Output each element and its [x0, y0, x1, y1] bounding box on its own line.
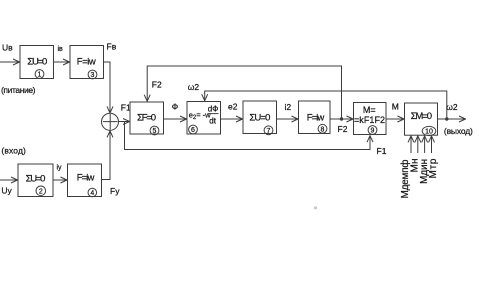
svg-text:M: M: [392, 101, 399, 111]
label Мтр: [428, 158, 439, 178]
svg-text:Uy: Uy: [1, 186, 12, 196]
wire Мдин input: [424, 136, 426, 153]
svg-text:ΣU=0: ΣU=0: [27, 57, 47, 68]
block U8 F=iw right: [299, 101, 331, 134]
pin number 5: [150, 126, 159, 135]
label (выход): [444, 126, 473, 136]
svg-text:5: 5: [153, 128, 157, 135]
node Ф label: [172, 102, 178, 112]
svg-text:M=: M=: [363, 105, 376, 115]
block U5 sum-F ΣF=0: [130, 102, 164, 134]
svg-text:10: 10: [425, 129, 433, 136]
node omega2 label top: [188, 82, 200, 92]
svg-text:Ф: Ф: [172, 102, 178, 112]
wire omega2 feedback into block 6: [205, 91, 449, 121]
block U10 sum-M ΣM=0: [405, 103, 438, 135]
wire Fв to summing junction: [104, 62, 111, 113]
block U3 F=iw upper: [70, 46, 104, 79]
svg-text:4: 4: [90, 190, 94, 197]
svg-text:F=iw: F=iw: [307, 113, 325, 124]
pin number 9: [368, 126, 377, 135]
svg-text:iв: iв: [58, 46, 64, 53]
pin number 2: [36, 186, 46, 196]
label (питание): [1, 85, 36, 95]
block U4 F=iw lower: [68, 164, 102, 197]
svg-text:i2: i2: [285, 102, 292, 112]
block U7 sum-U ΣU=0: [243, 101, 277, 134]
wire input Uв: [0, 61, 20, 63]
svg-text:F2: F2: [152, 79, 162, 89]
node Fy label: [110, 186, 120, 196]
wire output omega2: [438, 118, 466, 120]
svg-text:Мтр: Мтр: [428, 158, 439, 178]
svg-text:F=iw: F=iw: [77, 56, 96, 67]
wire block7 to block8: [277, 118, 299, 120]
svg-text:9: 9: [371, 128, 375, 135]
label (вход): [1, 145, 26, 155]
pin number 3: [88, 70, 97, 79]
svg-text:iy: iy: [57, 165, 63, 172]
wire F1 to block 5: [119, 121, 130, 123]
node F1 label right: [377, 146, 387, 156]
node i2 label: [285, 102, 292, 112]
node e2 label: [228, 102, 238, 112]
wire Мтр input: [431, 136, 433, 153]
svg-text:(питание): (питание): [1, 85, 36, 95]
wire F2 feedback into block 5: [147, 66, 343, 121]
label Мдемпф: [399, 160, 411, 199]
wire block5 to block6: [164, 118, 187, 120]
block U6 emf e2=-w dФ/dt: [187, 102, 221, 135]
svg-text:F1: F1: [121, 103, 131, 113]
pin number 4: [88, 188, 97, 197]
svg-text:ω2: ω2: [188, 82, 200, 92]
svg-text:ΣM=0: ΣM=0: [411, 111, 433, 122]
svg-text:=kF1F2: =kF1F2: [354, 115, 385, 125]
svg-text:3: 3: [91, 72, 95, 79]
node M label: [392, 101, 399, 111]
label Мн: [409, 159, 420, 173]
svg-text:ΣU=0: ΣU=0: [249, 113, 270, 124]
wire F1 feedback to block 9: [125, 122, 371, 150]
pin number 6: [189, 125, 198, 134]
wire Мн input: [417, 136, 419, 153]
svg-text:8: 8: [321, 126, 325, 133]
node F1 label: [121, 103, 131, 113]
block U1 sum-U power ΣU=0: [20, 46, 54, 79]
pin number 7: [264, 126, 273, 135]
svg-text:ΣF=0: ΣF=0: [137, 112, 156, 123]
svg-text:F1: F1: [377, 146, 387, 156]
svg-text:(выход): (выход): [444, 126, 473, 136]
svg-text:F2: F2: [338, 124, 348, 134]
node Uy label: [1, 186, 12, 196]
artifact dot: [314, 206, 317, 209]
svg-text:Uв: Uв: [2, 43, 13, 53]
summing junction: [102, 113, 119, 130]
wire Fy to summing junction: [102, 131, 111, 180]
svg-text:F=iw: F=iw: [77, 173, 95, 184]
svg-text:e2: e2: [228, 102, 238, 112]
block U2 sum-U input ΣU=0: [18, 164, 53, 197]
wire block6 to block7: [221, 118, 243, 120]
node F2 label top: [152, 79, 162, 89]
pin number 8: [318, 124, 327, 133]
wire block9 to block10: [386, 118, 404, 120]
svg-text:(вход): (вход): [1, 145, 26, 155]
node omega2 output label: [446, 102, 458, 112]
pin number 10: [422, 126, 436, 135]
svg-text:dt: dt: [209, 116, 216, 125]
svg-text:7: 7: [267, 128, 271, 135]
svg-text:1: 1: [38, 72, 42, 79]
wire block8 to block9: [330, 118, 353, 120]
wire iy: [53, 179, 67, 181]
node iв label: [58, 46, 64, 53]
node F2 label mid: [338, 124, 348, 134]
node iy label: [57, 165, 63, 172]
label Мдин: [419, 159, 430, 184]
wire iв: [54, 61, 70, 63]
node Uв label: [2, 43, 13, 53]
wire input Uy: [0, 179, 18, 181]
svg-text:Fy: Fy: [110, 186, 120, 196]
node Fв label: [107, 42, 117, 52]
svg-text:ω2: ω2: [446, 102, 458, 112]
pin number 1: [35, 70, 44, 79]
block U9 torque M=kF1F2: [354, 103, 387, 135]
svg-text:dФ: dФ: [208, 104, 219, 113]
svg-text:ΣU=0: ΣU=0: [26, 174, 46, 185]
svg-text:Fв: Fв: [107, 42, 117, 52]
svg-text:6: 6: [191, 127, 195, 134]
svg-text:2: 2: [39, 189, 43, 196]
wire Мдемпф input: [410, 136, 412, 153]
